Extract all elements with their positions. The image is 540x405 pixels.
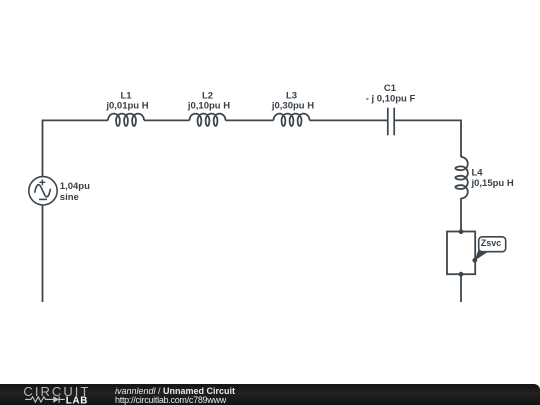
footer circuit url xyxy=(115,395,226,405)
svg-text:Zsvc: Zsvc xyxy=(481,238,502,248)
capacitor C1 plate right xyxy=(393,108,395,136)
wire Zsvc box to open end xyxy=(460,274,462,302)
voltage source sine wave xyxy=(35,185,51,197)
junction dot box top xyxy=(459,229,464,234)
svg-text:sine: sine xyxy=(60,192,79,203)
junction dot box bottom xyxy=(459,272,464,277)
impedance box Zsvc xyxy=(447,232,475,275)
wire L2-L3 xyxy=(226,119,274,121)
voltage source minus sign xyxy=(39,198,47,200)
svg-text:LAB: LAB xyxy=(66,395,88,405)
callout balloon Zsvc xyxy=(479,237,506,252)
svg-text:j0,30pu H: j0,30pu H xyxy=(271,101,314,112)
svg-text:L4: L4 xyxy=(472,168,484,179)
logo diode triangle xyxy=(53,396,59,403)
svg-text:j0,01pu H: j0,01pu H xyxy=(105,101,148,112)
callout tail xyxy=(475,247,488,261)
wire L1-L2 xyxy=(144,119,190,121)
CircuitLab logo xyxy=(0,384,100,405)
inductor L2 xyxy=(190,114,226,126)
svg-text:1,04pu: 1,04pu xyxy=(60,181,90,192)
svg-text:j0,10pu H: j0,10pu H xyxy=(187,101,230,112)
logo diode cathode bar and wire xyxy=(59,396,65,403)
footer author and circuit title xyxy=(115,386,235,396)
logo resistor zigzag wire xyxy=(25,397,53,402)
svg-text:j0,15pu H: j0,15pu H xyxy=(471,178,514,189)
wire L4 to Zsvc box xyxy=(460,198,462,232)
voltage source plus sign xyxy=(39,179,45,185)
voltage source V1 circle xyxy=(29,177,57,205)
inductor L3 xyxy=(274,114,310,126)
inductor L4 xyxy=(455,157,467,198)
wire L3-C1 xyxy=(310,119,388,121)
wire source bottom to open end xyxy=(42,205,44,302)
svg-text:C1: C1 xyxy=(384,83,397,94)
inductor L1 xyxy=(108,114,144,126)
wire top-left: source to top-left corner to L1 xyxy=(43,120,109,177)
junction dot box right xyxy=(472,258,477,263)
wire C1 to top-right corner to L4 xyxy=(395,120,461,157)
capacitor C1 plate left xyxy=(387,108,389,136)
svg-text:- j 0,10pu F: - j 0,10pu F xyxy=(366,94,416,105)
